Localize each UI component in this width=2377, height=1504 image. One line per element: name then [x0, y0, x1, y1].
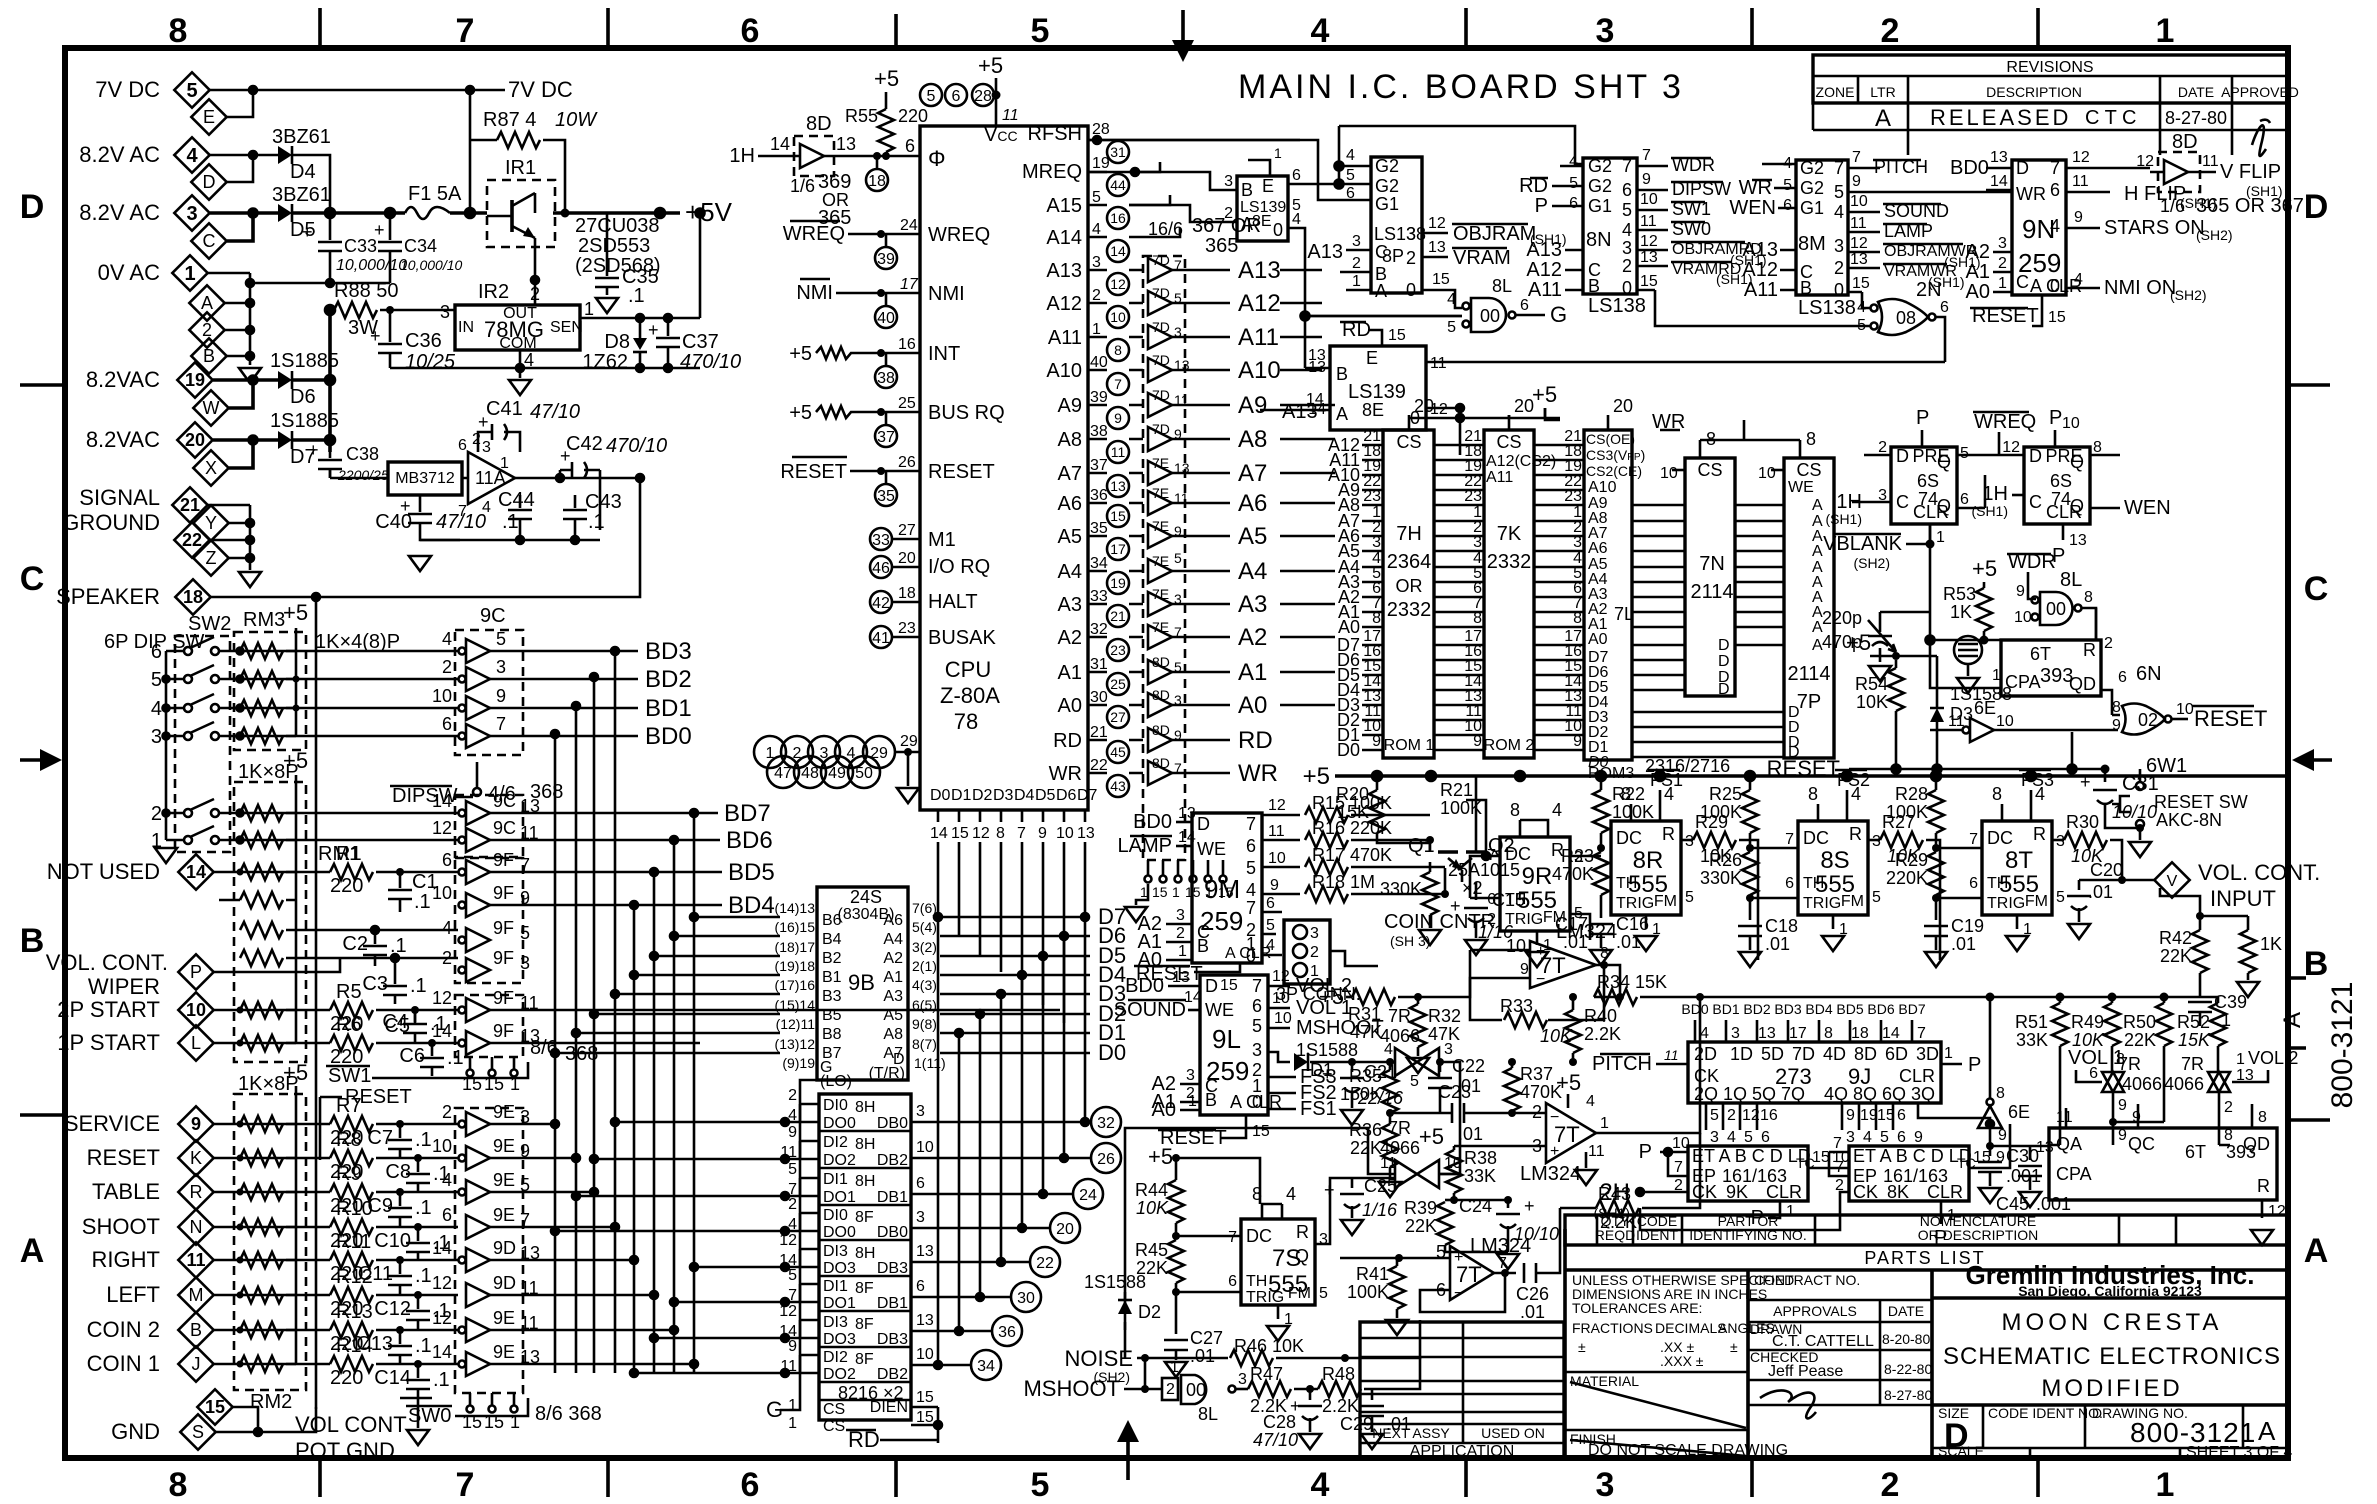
- svg-text:2: 2: [1176, 925, 1185, 942]
- svg-text:2: 2: [1532, 1102, 1542, 1122]
- svg-text:A1: A1: [1058, 662, 1082, 684]
- svg-text:9F: 9F: [493, 918, 514, 938]
- svg-text:.1: .1: [415, 1265, 432, 1287]
- svg-text:9E: 9E: [493, 1170, 515, 1190]
- right edge A box label: [2279, 1012, 2306, 1028]
- svg-text:2.2K: 2.2K: [1322, 1396, 1359, 1416]
- svg-text:D: D: [2016, 158, 2029, 178]
- zone tick marks top: [320, 8, 2038, 48]
- svg-text:20: 20: [1613, 396, 1633, 416]
- svg-text:8H: 8H: [855, 1173, 875, 1190]
- svg-text:A13: A13: [1238, 257, 1281, 284]
- resistor R87: [470, 90, 598, 218]
- svg-text:9: 9: [788, 1124, 797, 1141]
- svg-text:TH: TH: [1987, 875, 2008, 892]
- svg-text:1: 1: [1936, 529, 1945, 546]
- svg-text:18: 18: [898, 585, 916, 602]
- svg-text:8: 8: [1114, 342, 1122, 358]
- label PITCH left: [1592, 1047, 1688, 1075]
- svg-text:6: 6: [2089, 1065, 2098, 1082]
- svg-text:2: 2: [1406, 248, 1416, 268]
- svg-text:+5: +5: [283, 1060, 308, 1085]
- svg-text:BD5: BD5: [1836, 1001, 1863, 1017]
- connector N SHOOT: [82, 1209, 214, 1244]
- svg-text:15K: 15K: [2178, 1030, 2211, 1050]
- svg-text:7: 7: [1642, 147, 1651, 164]
- svg-text:TH: TH: [1616, 875, 1637, 892]
- svg-text:R12: R12: [336, 1266, 373, 1288]
- svg-text:FM: FM: [2025, 893, 2048, 910]
- svg-text:C: C: [1375, 242, 1388, 262]
- svg-text:A2: A2: [1058, 627, 1082, 649]
- svg-text:10/25: 10/25: [405, 351, 456, 373]
- svg-text:TH: TH: [1246, 1273, 1267, 1290]
- 8216 DB output rows: [911, 917, 1090, 1369]
- svg-text:12: 12: [1110, 276, 1126, 292]
- svg-text:R41: R41: [1356, 1264, 1389, 1284]
- svg-text:C.T. CATTELL: C.T. CATTELL: [1772, 1333, 1874, 1350]
- wires BD5 BD4: [490, 868, 722, 909]
- svg-text:470/10: 470/10: [606, 435, 667, 457]
- svg-text:3: 3: [1596, 12, 1615, 50]
- svg-text:6: 6: [1487, 891, 1496, 908]
- svg-text:5(4): 5(4): [912, 919, 937, 935]
- svg-text:RESET: RESET: [2194, 706, 2267, 731]
- labels OBJRAM VRAM: [1422, 215, 1567, 269]
- svg-text:G: G: [1550, 302, 1567, 327]
- svg-text:330K: 330K: [1380, 879, 1422, 899]
- svg-text:USED ON: USED ON: [1481, 1425, 1545, 1441]
- resistor R53: [1943, 556, 1997, 645]
- svg-text:A: A: [1812, 497, 1823, 514]
- 9J Q outputs right group: [1842, 1103, 1994, 1146]
- resistors R51 R49 R50 R52: [1986, 993, 2227, 1146]
- label WREQ above 74s: [1973, 411, 2036, 455]
- svg-text:FRACTIONS: FRACTIONS: [1572, 1320, 1653, 1336]
- timer 8R 555: [1611, 770, 1694, 951]
- svg-text:FM: FM: [1654, 893, 1677, 910]
- svg-text:R20: R20: [1336, 784, 1369, 804]
- resistor R39 22K: [1404, 1198, 1508, 1252]
- svg-text:R23: R23: [1561, 846, 1594, 866]
- svg-text:12: 12: [432, 988, 452, 1008]
- top center arrow: [1172, 10, 1194, 62]
- svg-text:13: 13: [1110, 478, 1126, 494]
- reset switch 6W1: [2112, 755, 2248, 857]
- svg-text:8: 8: [2258, 1109, 2267, 1126]
- svg-text:C20: C20: [2090, 860, 2123, 880]
- svg-text:C41: C41: [486, 398, 523, 420]
- svg-text:VOL CONT: VOL CONT: [295, 1412, 407, 1437]
- capacitor C5: [384, 1010, 415, 1037]
- buffers 9F: [432, 850, 530, 982]
- svg-text:14: 14: [186, 862, 206, 882]
- svg-text:2: 2: [472, 431, 481, 448]
- svg-text:B6: B6: [822, 912, 842, 929]
- svg-text:R38: R38: [1464, 1148, 1497, 1168]
- svg-text:8: 8: [169, 1466, 188, 1504]
- svg-text:D6: D6: [1056, 787, 1077, 804]
- svg-text:5: 5: [151, 669, 162, 691]
- svg-text:4066: 4066: [2122, 1074, 2162, 1094]
- svg-text:5: 5: [1622, 200, 1632, 220]
- buffer 8D 1H input: [729, 113, 920, 229]
- svg-text:C38: C38: [346, 444, 379, 464]
- svg-text:P: P: [1916, 407, 1929, 429]
- svg-text:(9)19: (9)19: [782, 1055, 815, 1071]
- circled terminals 32 26 24 20 22 30 36 34: [971, 1107, 1121, 1380]
- svg-text:9E: 9E: [493, 1342, 515, 1362]
- buffer box 9C lower: [455, 795, 523, 857]
- svg-text:7D: 7D: [1152, 319, 1170, 335]
- svg-text:QD: QD: [2243, 1134, 2270, 1154]
- diode D5: [272, 184, 331, 241]
- svg-text:11: 11: [1002, 107, 1019, 124]
- svg-text:CONTRACT NO.: CONTRACT NO.: [1754, 1272, 1860, 1288]
- svg-text:V: V: [2167, 873, 2178, 890]
- svg-text:11: 11: [1111, 444, 1126, 460]
- svg-text:10W: 10W: [555, 109, 598, 131]
- svg-text:7E: 7E: [1152, 553, 1169, 569]
- svg-text:3: 3: [1622, 238, 1632, 258]
- svg-text:SERVICE: SERVICE: [64, 1111, 160, 1136]
- svg-text:1: 1: [788, 1415, 797, 1432]
- svg-text:10: 10: [432, 1136, 452, 1156]
- svg-text:C37: C37: [682, 331, 719, 353]
- svg-text:3: 3: [1872, 833, 1881, 850]
- svg-text:10: 10: [1996, 713, 2014, 730]
- svg-text:15: 15: [1152, 884, 1168, 900]
- svg-text:9: 9: [1914, 1129, 1923, 1146]
- svg-text:SIGNAL: SIGNAL: [79, 485, 160, 510]
- svg-text:00: 00: [1186, 1380, 1206, 1400]
- vertical bus bundle left-center: [551, 647, 694, 1373]
- svg-text:4: 4: [1834, 202, 1844, 222]
- svg-text:12: 12: [1850, 235, 1868, 252]
- svg-text:5: 5: [1410, 1073, 1419, 1090]
- svg-text:LM324: LM324: [1470, 1235, 1531, 1257]
- capacitor C38: [308, 440, 389, 483]
- svg-text:C: C: [20, 560, 45, 598]
- wires rows C2 C3 C4: [219, 900, 458, 962]
- svg-text:0: 0: [1273, 220, 1283, 240]
- svg-text:6: 6: [1960, 491, 1969, 508]
- capacitor C25: [1315, 1176, 1398, 1244]
- svg-text:8: 8: [1573, 610, 1582, 627]
- svg-text:A0: A0: [1338, 617, 1360, 637]
- svg-text:7: 7: [788, 1287, 797, 1304]
- svg-text:0: 0: [1246, 946, 1256, 966]
- inter-rom bus 7K-7L: [1534, 445, 1584, 750]
- svg-text:9E: 9E: [493, 1102, 515, 1122]
- svg-text:12: 12: [1272, 968, 1290, 985]
- svg-text:DIEN: DIEN: [870, 1399, 908, 1416]
- svg-text:00: 00: [1480, 306, 1500, 326]
- RM1 resistors: [240, 775, 296, 1051]
- svg-text:4: 4: [151, 698, 162, 720]
- 9B pin labels left: [775, 900, 816, 1071]
- 9K left pins: [1593, 1135, 1689, 1221]
- svg-text:A4: A4: [883, 931, 903, 948]
- svg-text:D2: D2: [1138, 1302, 1161, 1322]
- svg-text:8T: 8T: [2005, 847, 2033, 874]
- svg-text:6: 6: [442, 1205, 452, 1225]
- wires BD7 BD6: [490, 809, 720, 844]
- svg-text:11: 11: [1268, 823, 1285, 840]
- capacitor C15: [1450, 882, 1525, 955]
- 8P input wires: [1307, 233, 1371, 290]
- svg-text:G2: G2: [1375, 156, 1399, 176]
- svg-text:9R: 9R: [1522, 863, 1553, 890]
- ground buffer enables: [1125, 907, 1147, 922]
- svg-text:23: 23: [898, 620, 916, 637]
- svg-text:32: 32: [1097, 1115, 1115, 1132]
- svg-text:CS: CS: [1697, 460, 1722, 480]
- svg-text:8D: 8D: [1152, 755, 1170, 771]
- nor 6N: [2112, 699, 2267, 735]
- wire IR2 out rail: [580, 209, 705, 331]
- 8K left pins: [1640, 1135, 1849, 1230]
- connector E: [191, 99, 226, 134]
- variable cap 220p/470p: [1822, 608, 1930, 681]
- svg-text:3: 3: [1834, 236, 1844, 256]
- svg-text:±: ±: [1578, 1339, 1586, 1355]
- left edge zone ticks: [20, 385, 65, 1115]
- svg-text:2: 2: [1224, 205, 1233, 222]
- svg-text:22K: 22K: [2124, 1030, 2156, 1050]
- svg-text:39: 39: [1090, 389, 1108, 406]
- svg-text:5: 5: [1246, 858, 1256, 878]
- inter-rom bus 7H-7K: [1434, 445, 1484, 750]
- svg-text:38: 38: [1090, 423, 1108, 440]
- svg-text:8: 8: [1510, 800, 1520, 820]
- svg-text:TRIG: TRIG: [1616, 895, 1654, 912]
- svg-text:18: 18: [1851, 1025, 1869, 1042]
- resistor R54: [1846, 630, 1876, 656]
- svg-text:TH: TH: [1803, 875, 1824, 892]
- svg-text:R: R: [2033, 824, 2046, 844]
- svg-text:R50: R50: [2123, 1012, 2156, 1032]
- svg-text:22: 22: [1090, 757, 1108, 774]
- svg-text:8D: 8D: [2172, 131, 2198, 153]
- svg-text:R54: R54: [1855, 674, 1888, 694]
- svg-text:COIN 1: COIN 1: [87, 1351, 160, 1376]
- svg-text:NOISE: NOISE: [1065, 1346, 1133, 1371]
- svg-text:R: R: [2083, 640, 2096, 660]
- cpu left pin WREQ: [783, 217, 920, 269]
- svg-text:C27: C27: [1190, 1328, 1223, 1348]
- svg-text:4: 4: [1727, 1129, 1736, 1146]
- svg-text:(19)18: (19)18: [775, 958, 816, 974]
- svg-text:1: 1: [1188, 1093, 1197, 1110]
- svg-text:7: 7: [1852, 149, 1861, 166]
- svg-text:9D: 9D: [493, 1273, 516, 1293]
- svg-text:LS138: LS138: [1374, 224, 1426, 244]
- svg-text:7V DC: 7V DC: [95, 77, 160, 102]
- ram 7N 2114: [1660, 429, 1735, 698]
- svg-text:19: 19: [1860, 1107, 1878, 1124]
- svg-text:Z: Z: [206, 548, 217, 568]
- svg-text:9E: 9E: [493, 1205, 515, 1225]
- svg-text:RESET: RESET: [87, 1145, 160, 1170]
- svg-text:4: 4: [1384, 1041, 1393, 1058]
- svg-text:DC: DC: [1616, 828, 1642, 848]
- svg-text:D4: D4: [290, 161, 316, 183]
- svg-text:DO1: DO1: [823, 1189, 856, 1206]
- svg-text:S: S: [192, 1422, 204, 1442]
- svg-text:TRIG: TRIG: [1803, 895, 1841, 912]
- svg-text:A4: A4: [1238, 558, 1267, 585]
- svg-text:37: 37: [1090, 457, 1108, 474]
- svg-text:8E: 8E: [1362, 400, 1384, 420]
- svg-text:1: 1: [584, 299, 594, 319]
- capacitor C35: [595, 213, 659, 313]
- svg-text:C6: C6: [399, 1045, 425, 1067]
- svg-text:6: 6: [458, 437, 467, 454]
- 9B right pin labels: [912, 900, 946, 1071]
- 9L inputs: [1114, 969, 1270, 1149]
- label 7V DC right: [470, 77, 573, 102]
- svg-text:TOLERANCES ARE:: TOLERANCES ARE:: [1572, 1300, 1702, 1316]
- resistor R38 33K: [1419, 1124, 1497, 1204]
- wire 8E pin4 down to BL: [1288, 228, 1462, 368]
- svg-text:CS: CS: [823, 1418, 845, 1435]
- svg-text:1: 1: [1944, 1045, 1953, 1062]
- svg-text:31: 31: [1090, 656, 1108, 673]
- svg-text:DI0: DI0: [823, 1097, 848, 1114]
- svg-text:9(8): 9(8): [912, 1016, 937, 1032]
- svg-text:DATE: DATE: [2178, 84, 2214, 100]
- svg-text:A: A: [20, 1232, 45, 1270]
- svg-text:R44: R44: [1135, 1180, 1168, 1200]
- svg-text:5: 5: [2056, 889, 2065, 906]
- connector 1 0V AC: [98, 255, 208, 290]
- svg-text:6: 6: [1246, 836, 1256, 856]
- 9L outputs: [1268, 968, 1384, 1120]
- svg-text:47K: 47K: [1428, 1024, 1460, 1044]
- svg-text:2: 2: [1998, 255, 2007, 272]
- svg-text:R35: R35: [1349, 1066, 1382, 1086]
- cpu Z-80A box: [920, 123, 1098, 810]
- svg-text:8F: 8F: [855, 1280, 874, 1297]
- svg-text:27: 27: [1110, 709, 1126, 725]
- left edge arrow: [20, 749, 62, 771]
- svg-text:5: 5: [788, 1161, 797, 1178]
- wires 9R: [1466, 800, 1601, 940]
- svg-text:B: B: [1336, 364, 1348, 384]
- svg-text:WR: WR: [1238, 760, 1278, 787]
- svg-text:R33: R33: [1500, 996, 1533, 1016]
- svg-text:DI2: DI2: [823, 1349, 848, 1366]
- svg-text:8.2V AC: 8.2V AC: [79, 200, 160, 225]
- resistor R22 R23: [1552, 776, 1654, 912]
- svg-text:R32: R32: [1428, 1006, 1461, 1026]
- resistor R14: [214, 1335, 458, 1389]
- svg-text:B2: B2: [822, 950, 842, 967]
- svg-text:7: 7: [1017, 825, 1026, 842]
- svg-text:4: 4: [788, 1216, 797, 1233]
- svg-text:5: 5: [1834, 182, 1844, 202]
- svg-text:GROUND: GROUND: [62, 510, 160, 535]
- svg-text:San Diego, California 92123: San Diego, California 92123: [2018, 1283, 2202, 1299]
- timer 8T 555: [1969, 770, 2065, 951]
- svg-text:DC: DC: [1246, 1226, 1272, 1246]
- svg-text:8D: 8D: [1854, 1044, 1877, 1064]
- svg-text:8-27-80: 8-27-80: [2165, 108, 2227, 128]
- 9K CLR P: [1751, 1201, 1795, 1229]
- svg-text:R29: R29: [1895, 850, 1928, 870]
- capacitor C41: [478, 398, 580, 452]
- svg-text:10: 10: [2014, 609, 2032, 626]
- label WDR right: [2007, 551, 2056, 600]
- svg-text:4: 4: [442, 1170, 452, 1190]
- svg-text:A8: A8: [1058, 429, 1082, 451]
- svg-text:(SH1): (SH1): [1971, 503, 2008, 519]
- svg-text:R53: R53: [1943, 584, 1976, 604]
- svg-text:CS: CS: [1396, 432, 1421, 452]
- connector 4 8.2V AC: [79, 137, 209, 172]
- svg-text:4: 4: [1311, 1466, 1330, 1504]
- svg-text:COIN 2: COIN 2: [87, 1317, 160, 1342]
- ram bus 7L-7N: [1632, 505, 1685, 690]
- 8216 8H 8F stack box: [819, 1094, 911, 1420]
- svg-text:3: 3: [151, 726, 162, 748]
- svg-text:IN: IN: [458, 319, 474, 336]
- resistor R45 22K: [1135, 1240, 1241, 1300]
- svg-text:3: 3: [1238, 1371, 1247, 1388]
- buffer box 9C: [455, 605, 523, 755]
- svg-text:3: 3: [1406, 224, 1416, 244]
- svg-text:0: 0: [2050, 276, 2060, 296]
- svg-text:9: 9: [2132, 1109, 2141, 1126]
- svg-text:−: −: [1536, 971, 1545, 988]
- svg-text:15: 15: [205, 1397, 225, 1417]
- svg-text:CPA: CPA: [2056, 1164, 2092, 1184]
- svg-text:8-20-80: 8-20-80: [1882, 1331, 1930, 1347]
- svg-text:NMI ON: NMI ON: [2104, 277, 2176, 299]
- svg-text:A2: A2: [1966, 241, 1990, 263]
- svg-text:22K: 22K: [1405, 1216, 1437, 1236]
- connector 22: [174, 522, 209, 557]
- svg-text:Q: Q: [2070, 452, 2084, 472]
- svg-text:DECIMALS: DECIMALS: [1655, 1320, 1727, 1336]
- svg-text:ROM 2: ROM 2: [1484, 737, 1535, 754]
- svg-text:5: 5: [1319, 1285, 1328, 1302]
- svg-text:(18)17: (18)17: [775, 939, 816, 955]
- svg-text:SW1: SW1: [328, 1065, 371, 1087]
- svg-text:8L: 8L: [2060, 569, 2082, 591]
- svg-text:D0: D0: [1098, 1040, 1126, 1065]
- svg-text:32: 32: [1090, 621, 1108, 638]
- capacitor C37: [648, 320, 741, 373]
- svg-text:7D: 7D: [1152, 387, 1170, 403]
- svg-text:WR: WR: [1049, 763, 1082, 785]
- rom row labels left: [1328, 435, 1360, 760]
- right edge A zone small tick: [2288, 978, 2306, 1048]
- wire IR1 base to IR2: [531, 247, 539, 305]
- svg-text:FS2: FS2: [1837, 770, 1870, 790]
- svg-text:6S: 6S: [1917, 471, 1939, 491]
- label RD bottom: [846, 1427, 938, 1452]
- svg-text:R1: R1: [336, 843, 362, 865]
- svg-text:LM324: LM324: [1556, 921, 1617, 943]
- svg-text:7(6): 7(6): [912, 900, 937, 916]
- svg-text:V FLIP: V FLIP: [2220, 161, 2281, 183]
- svg-text:C23: C23: [1438, 1082, 1471, 1102]
- svg-text:34: 34: [1090, 555, 1108, 572]
- wire 7VDC: [210, 86, 474, 117]
- svg-text:1: 1: [2156, 1466, 2175, 1504]
